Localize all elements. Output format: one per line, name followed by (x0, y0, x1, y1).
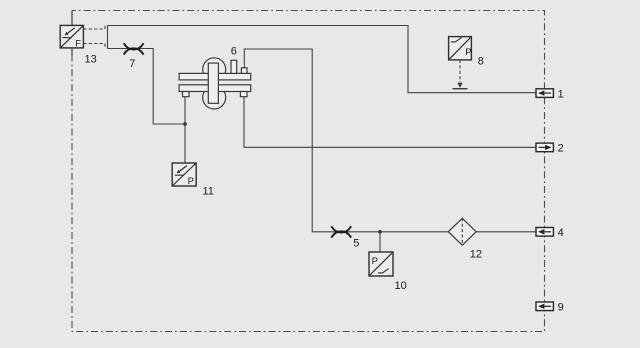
vent arrowhead (457, 83, 462, 88)
pressure sensor 8 body (449, 37, 472, 60)
vent bar (453, 88, 468, 90)
svg-text:11: 11 (203, 185, 214, 197)
svg-text:8: 8 (478, 56, 484, 68)
flow sensor 13 body (60, 25, 83, 49)
svg-text:5: 5 (353, 238, 359, 250)
pressure sensor 11 body (172, 163, 196, 187)
wire: node B down to sensor 10 (379, 232, 381, 252)
wire: line through throttle 7 to junction A (108, 49, 186, 125)
wire: pump 6 right port to port 2 (244, 97, 536, 148)
wire: node between dashed taps of 13 (vertical link) (107, 26, 109, 49)
node B junction dot (378, 230, 382, 234)
port 2 (536, 143, 553, 152)
filter 12 (448, 218, 476, 245)
svg-text:13: 13 (85, 54, 97, 66)
compressor unit 6 (179, 58, 251, 109)
wire: pump 6 left port down to sensor 11 (184, 97, 186, 163)
port 1 (536, 89, 553, 98)
port 9 (536, 302, 553, 311)
enclosure frame (dash-dot machine boundary) (72, 11, 545, 332)
svg-text:7: 7 (129, 58, 135, 70)
svg-text:P: P (465, 47, 471, 58)
svg-text:6: 6 (231, 45, 237, 57)
frame stub above sensor 13 (71, 11, 73, 26)
svg-text:4: 4 (558, 227, 564, 239)
svg-text:9: 9 (558, 302, 564, 314)
svg-text:2: 2 (558, 143, 564, 155)
svg-text:10: 10 (395, 280, 407, 292)
dashed vent line of sensor 8 (459, 60, 461, 82)
node A junction dot (183, 122, 187, 126)
port 4 (536, 228, 553, 237)
frame stub below sensor 13 (71, 48, 73, 55)
pressure sensor 10 body (369, 252, 393, 276)
svg-text:1: 1 (558, 88, 564, 100)
svg-text:12: 12 (470, 249, 482, 261)
throttle valve 7 (124, 43, 144, 54)
throttle valve 5 (331, 226, 351, 237)
dashed tap upper from sensor 13 (83, 26, 105, 30)
wire: pump 6 top connector to valve 5 line and port 4 (244, 49, 536, 232)
svg-text:P: P (372, 256, 378, 267)
dashed tap lower from sensor 13 (83, 44, 105, 49)
wire: upper supply line to port 1 (108, 26, 536, 93)
svg-text:F: F (75, 38, 81, 49)
svg-text:P: P (188, 176, 194, 187)
